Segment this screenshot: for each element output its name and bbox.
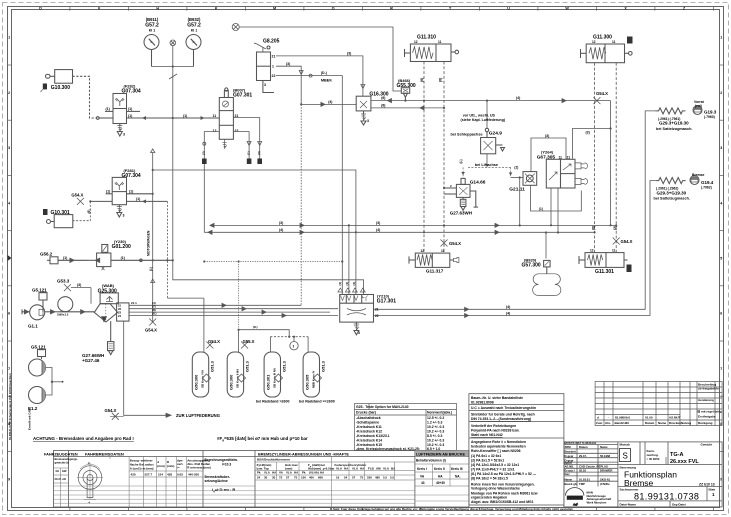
svg-text:4: 4 xyxy=(720,201,722,205)
solenoid valve G11.310 xyxy=(405,44,459,62)
svg-text:(4): (4) xyxy=(376,228,380,232)
svg-text:G19.4: G19.4 xyxy=(701,180,714,185)
svg-text:G8.205: G8.205 xyxy=(263,39,280,45)
svg-text:(4): (4) xyxy=(345,282,349,286)
svg-text:KI 1: KI 1 xyxy=(149,29,155,33)
svg-text:22: 22 xyxy=(235,129,239,133)
svg-text:Angegebene Rohr # = Nenndicken: Angegebene Rohr # = Nenndicken xyxy=(471,440,526,444)
air tank G50.305 xyxy=(303,352,319,397)
svg-text:Zust: Zust xyxy=(596,421,602,425)
svg-text:(3): (3) xyxy=(286,62,290,66)
svg-text:1: 1 xyxy=(720,36,722,40)
svg-text:G11.300: G11.300 xyxy=(593,35,612,41)
svg-text:3: 3 xyxy=(123,133,125,137)
svg-text:bei Schleppachse: bei Schleppachse xyxy=(451,133,483,137)
svg-text:G54.X: G54.X xyxy=(105,408,117,413)
svg-text:154: 154 xyxy=(158,473,163,477)
test connector between gauges xyxy=(170,40,176,46)
fitting G5.121 lower xyxy=(38,350,46,360)
wheel cross-section drawing xyxy=(77,464,103,499)
svg-text:1: 1 xyxy=(8,36,10,40)
main distribution bus upper xyxy=(210,223,616,227)
svg-text:Band2-Mit: Band2-Mit xyxy=(615,421,630,425)
svg-text:(8.) PA 14x2.5 ou PA 12x1.5-PH: (8.) PA 14x2.5 ou PA 12x1.5-PHLY = 52 --… xyxy=(471,472,536,476)
svg-text:7: 7 xyxy=(720,367,722,371)
svg-text:G51.3: G51.3 xyxy=(210,360,215,372)
top stubs G17.301 xyxy=(338,288,365,292)
air horn E1.2 a xyxy=(29,359,46,376)
svg-text:G50.300: G50.300 xyxy=(229,374,234,390)
svg-text:VLA: VLA xyxy=(383,467,390,471)
svg-text:G11.310: G11.310 xyxy=(417,35,436,41)
svg-text:(8.): (8.) xyxy=(253,325,258,329)
svg-text:AS.MUT: AS.MUT xyxy=(669,415,681,419)
svg-text:DIN 74.253.1--2---(Sonderausfu: DIN 74.253.1--2---(Sonderausfuhrung) xyxy=(471,417,531,421)
svg-text:Verkeileff der Rohrleitungen: Verkeileff der Rohrleitungen xyxy=(471,424,516,428)
brake cylinder table xyxy=(257,458,397,471)
pressure option table xyxy=(355,404,457,451)
table headers xyxy=(44,451,465,456)
svg-text:Ruckgang: Ruckgang xyxy=(698,421,713,425)
svg-text:-: - xyxy=(608,415,609,419)
svg-text:G25.300: G25.300 xyxy=(98,288,117,294)
svg-text:100: 100 xyxy=(301,476,306,480)
svg-text:G0: G0 xyxy=(56,469,60,473)
label gauge 1 xyxy=(145,17,159,33)
svg-text:FAHRZEUGDATEN: FAHRZEUGDATEN xyxy=(44,452,78,456)
svg-text:12: 12 xyxy=(590,249,594,253)
svg-text:VLA: VLA xyxy=(352,467,359,471)
wire gauges manifold xyxy=(152,46,364,295)
svg-text:(4): (4) xyxy=(516,96,520,100)
shutoff G54.X on supply right xyxy=(593,97,600,104)
silencer G27.63WH xyxy=(460,197,466,210)
svg-text:Aenderung: Aenderung xyxy=(698,398,714,402)
wire G21.11 left xyxy=(511,177,523,179)
svg-text:G54.X: G54.X xyxy=(208,339,220,344)
svg-text:57: 57 xyxy=(352,476,356,480)
svg-text:Drucken: Drucken xyxy=(669,421,681,425)
svg-text:75: 75 xyxy=(360,476,364,480)
wires G07.301 ports xyxy=(203,118,262,233)
svg-text:O: O xyxy=(332,7,335,11)
svg-text:ZZ b10 13: ZZ b10 13 xyxy=(699,483,715,487)
svg-text:(mm): (mm) xyxy=(157,464,164,468)
svg-text:(6): (6) xyxy=(87,210,91,214)
wire lamp to pressure switch xyxy=(239,27,401,91)
svg-text:11: 11 xyxy=(213,114,217,118)
notes block xyxy=(469,394,564,505)
svg-text:cb-freigabebln: cb-freigabebln xyxy=(698,387,719,391)
svg-text:Nutzug: Nutzug xyxy=(681,421,691,425)
svg-text:Kreis I: Kreis I xyxy=(417,467,427,471)
hose coil supply G29.3+G19.30 xyxy=(656,106,703,115)
relay valve G07.304 (F282) xyxy=(105,94,219,137)
svg-text:G29.3+G19.30: G29.3+G19.30 xyxy=(657,190,687,195)
svg-text:12: 12 xyxy=(414,40,418,44)
solenoid valve G07.301 (B007) xyxy=(219,88,233,148)
drain valve G55.X tank2 xyxy=(241,342,248,349)
wire G8.205 port21 to G16.300 top xyxy=(276,56,365,96)
svg-text:24: 24 xyxy=(257,476,261,480)
svg-text:Aln-: Aln- xyxy=(605,421,611,425)
svg-text:Sinnbilder fur Gerate und Rohr: Sinnbilder fur Gerate und Rohrltg. nach xyxy=(471,413,535,417)
ports block labels xyxy=(118,304,122,318)
bulkhead plugs under G07.301 xyxy=(202,159,207,165)
svg-text:5.5: 5.5 xyxy=(383,476,387,480)
wire G16.300 out upper xyxy=(371,99,611,103)
svg-text:G11.301: G11.301 xyxy=(595,269,614,275)
air dryer G25.300 (B438) xyxy=(94,293,129,342)
svg-text:G67.305: G67.305 xyxy=(537,154,556,160)
svg-text:400: 400 xyxy=(309,476,314,480)
svg-text:i=10.3: i=10.3 xyxy=(222,463,231,467)
svg-text:-Kreisdruck K12: -Kreisdruck K12 xyxy=(356,430,382,434)
svg-text:02.02: 02.02 xyxy=(579,468,586,472)
svg-text:30: 30 xyxy=(264,476,268,480)
svg-text:24: 24 xyxy=(344,476,348,480)
svg-text:-Kreisdruck K13/23.1: -Kreisdruck K13/23.1 xyxy=(356,434,390,438)
svg-text:(2): (2) xyxy=(514,165,518,169)
svg-text:(1) PA 6x1 = 32: (1) PA 6x1 = 32 6x1 xyxy=(471,454,501,458)
svg-text:1.2 +/- 0.3: 1.2 +/- 0.3 xyxy=(427,421,442,425)
svg-text:22: 22 xyxy=(272,74,276,78)
svg-text:-Abschaltdruck: -Abschaltdruck xyxy=(356,416,381,420)
svg-text:G07.304: G07.304 xyxy=(122,173,141,179)
svg-text:DRAWER: DRAWER xyxy=(600,468,612,472)
svg-text:VLA: VLA xyxy=(264,471,271,475)
manifold row 23 xyxy=(129,310,330,314)
svg-text:W: W xyxy=(565,7,569,11)
svg-text:Abgel. aus: BM1/G1f3/SB.412 un: Abgel. aus: BM1/G1f3/SB.412 und MG1 xyxy=(471,500,534,504)
svg-text:bei Sattelzugmasch.: bei Sattelzugmasch. xyxy=(654,197,691,201)
svg-text:57: 57 xyxy=(286,476,290,480)
svg-text:setzung/Achse: setzung/Achse xyxy=(205,479,228,483)
vehicle data cell xyxy=(55,457,78,481)
wire G16.300 in xyxy=(301,102,356,106)
svg-text:☒ mit regel.fahig: ☒ mit regel.fahig xyxy=(698,410,722,414)
svg-text:G57.300: G57.300 xyxy=(522,263,541,269)
ports G07.301 xyxy=(213,114,239,133)
svg-text:(1): (1) xyxy=(106,189,110,193)
frame grid ticks left/right xyxy=(8,65,724,451)
long risers G11.300 down to G11.301 xyxy=(595,63,617,253)
svg-text:(4) PA 12x1.5/16x2.5 = 32 1: (4) PA 12x1.5/16x2.5 = 32 12x1 xyxy=(471,463,519,467)
svg-text:30: 30 xyxy=(272,476,276,480)
svg-text:16: 16 xyxy=(336,476,340,480)
svg-text:G16.300: G16.300 xyxy=(369,92,388,98)
svg-text:(B911): (B911) xyxy=(146,17,159,22)
svg-text:G29.3+G19.30: G29.3+G19.30 xyxy=(659,121,689,126)
svg-text:(1): (1) xyxy=(128,107,132,111)
dotted service line xyxy=(204,262,342,330)
svg-text:Gewicht: Gewicht xyxy=(701,443,713,447)
svg-text:(2) PA 3x1.5 = 52: (2) PA 3x1.5 = 52 8x1 xyxy=(471,459,504,463)
svg-text:M: M xyxy=(273,7,276,11)
svg-text:(3): (3) xyxy=(376,221,380,225)
svg-text:11: 11 xyxy=(612,40,616,44)
svg-text:G11.317: G11.317 xyxy=(426,269,444,274)
svg-text:ZRM: ZRM xyxy=(565,445,572,449)
svg-text:R.Satz: Fuer diese Unterlage b: R.Satz: Fuer diese Unterlage behalten wi… xyxy=(330,507,574,511)
manifold row 24 xyxy=(129,314,338,318)
svg-text:G5.121: G5.121 xyxy=(32,288,47,293)
svg-text:(3): (3) xyxy=(77,283,81,287)
pressure limiter G16.300 xyxy=(356,96,371,125)
svg-text:ZUR LUFTFEDERUNG: ZUR LUFTFEDERUNG xyxy=(176,413,220,418)
svg-text:(1): (1) xyxy=(246,151,250,155)
G11.310 drops xyxy=(424,62,444,253)
svg-text:G01.200: G01.200 xyxy=(112,244,131,250)
empty ruled rows lower xyxy=(54,486,469,503)
svg-text:440-550: 440-550 xyxy=(188,473,199,477)
svg-text:527.7: 527.7 xyxy=(145,473,153,477)
svg-text:bei Liftachse: bei Liftachse xyxy=(475,163,498,167)
title block xyxy=(564,442,722,507)
svg-text:(6): (6) xyxy=(381,96,385,100)
svg-text:(1): (1) xyxy=(136,197,140,201)
svg-text:4: 4 xyxy=(8,201,10,205)
air tank G50.301 xyxy=(264,352,280,397)
svg-text:12: 12 xyxy=(213,129,217,133)
ports G8.205 xyxy=(272,55,276,79)
svg-text:(siehe Kapl. Luftfederung): (siehe Kapl. Luftfederung) xyxy=(461,118,506,122)
svg-text:Mastab: Mastab xyxy=(620,443,631,447)
svg-text:Drucke (bar): Drucke (bar) xyxy=(356,411,376,415)
svg-text:(6): (6) xyxy=(420,78,424,82)
svg-text:3: 3 xyxy=(358,331,360,335)
svg-text:GW: GW xyxy=(62,469,67,473)
svg-text:Blatt: Blatt xyxy=(709,488,716,492)
tank feed drops xyxy=(204,298,308,352)
svg-text:d: d xyxy=(89,501,91,505)
revision table xyxy=(595,382,722,426)
svg-text:(6): (6) xyxy=(592,226,596,230)
svg-text:(4): (4) xyxy=(328,100,332,104)
svg-text:-Schaltspanne: -Schaltspanne xyxy=(356,421,379,425)
svg-text:(1): (1) xyxy=(106,107,110,111)
left margin fold arrow xyxy=(8,255,12,261)
svg-text:Gez: Gez xyxy=(565,472,571,476)
svg-text:(B932): (B932) xyxy=(188,17,201,22)
pressure gauge G57.2 (B911) xyxy=(144,35,159,67)
svg-text:bei Radstand >2600: bei Radstand >2600 xyxy=(256,400,290,404)
svg-text:(3): (3) xyxy=(202,151,206,155)
svg-text:G5.121: G5.121 xyxy=(31,345,46,350)
svg-text:(1): (1) xyxy=(128,114,132,118)
svg-text:G21.11: G21.11 xyxy=(509,186,525,192)
svg-text:G50.301: G50.301 xyxy=(266,374,271,390)
svg-text:Werk Munchen: Werk Munchen xyxy=(587,500,607,504)
svg-text:S: S xyxy=(623,452,628,461)
svg-text:G27.63WH: G27.63WH xyxy=(450,210,472,215)
middle riser 2 xyxy=(348,225,350,294)
overflow valve G14.66 xyxy=(444,178,478,207)
shutoff G54.X on riser xyxy=(613,238,620,245)
svg-text:G10.301: G10.301 xyxy=(51,210,70,216)
svg-text:G55.X: G55.X xyxy=(243,339,255,344)
svg-text:G54.X: G54.X xyxy=(449,241,461,246)
svg-text:11: 11 xyxy=(438,40,442,44)
wire G8.205 port1 down xyxy=(276,66,303,305)
svg-text:G53.3: G53.3 xyxy=(57,279,70,284)
svg-text:21: 21 xyxy=(567,155,571,159)
frame grid letters top xyxy=(39,7,686,11)
svg-text:Pk: Pk xyxy=(302,471,306,475)
svg-text:26.xxx FVL: 26.xxx FVL xyxy=(670,459,699,465)
svg-text:5.5: 5.5 xyxy=(390,476,394,480)
svg-text:G19.3: G19.3 xyxy=(704,110,717,115)
svg-text:G07.301: G07.301 xyxy=(233,93,252,99)
svg-text:7: 7 xyxy=(8,367,10,371)
feed to G24.9 xyxy=(486,101,488,129)
svg-text:2: 2 xyxy=(720,91,722,95)
svg-text:G24.9: G24.9 xyxy=(489,131,502,137)
main distribution bus lower xyxy=(204,230,594,234)
drop to G10.301 xyxy=(73,201,91,220)
calc cell xyxy=(205,458,238,493)
svg-text:(Y264): (Y264) xyxy=(541,149,554,154)
svg-text:Bearbeit: Bearbeit xyxy=(565,450,576,454)
svg-text:8.5 +/- 0.3: 8.5 +/- 0.3 xyxy=(427,434,442,438)
shutoff G53.3 xyxy=(64,284,91,304)
connector G56.2 xyxy=(47,257,88,264)
wire G8.205 port22 MBEF line xyxy=(276,74,342,294)
svg-text:d: d xyxy=(597,415,599,419)
svg-text:29.Cf.: 29.Cf. xyxy=(579,454,587,458)
trailer control valve G17.301 (Y210) xyxy=(340,295,374,335)
svg-text:LUFTFEDERN AB BRUCKE: LUFTFEDERN AB BRUCKE xyxy=(416,452,465,456)
svg-text:11: 11 xyxy=(441,249,445,253)
svg-text:G54.X: G54.X xyxy=(621,239,633,244)
svg-text:Name: Name xyxy=(600,445,608,449)
svg-text:D: D xyxy=(39,7,42,11)
svg-text:(mm): (mm) xyxy=(167,464,174,468)
svg-text:(4): (4) xyxy=(338,282,342,286)
svg-text:(1): (1) xyxy=(149,267,153,271)
svg-text:Behaltervolumen (l): Behaltervolumen (l) xyxy=(416,459,446,463)
svg-text:6: 6 xyxy=(720,312,722,316)
svg-text:3: 3 xyxy=(367,119,369,123)
svg-text:G14.66: G14.66 xyxy=(470,179,486,185)
svg-text:480: 480 xyxy=(375,476,380,480)
svg-text:(6): (6) xyxy=(381,104,385,108)
svg-text:(4): (4) xyxy=(352,282,356,286)
hatched plug G11.300 xyxy=(627,37,633,44)
svg-text:G51.3: G51.3 xyxy=(245,360,250,372)
svg-text:5: 5 xyxy=(720,257,722,261)
svg-text:-b-: -b- xyxy=(88,461,92,465)
fitting G5.121 upper xyxy=(39,293,47,312)
svg-text:Bearb gb: Bearb gb xyxy=(565,482,577,486)
svg-text:(3): (3) xyxy=(257,151,261,155)
svg-text:56.1968: 56.1968 xyxy=(600,454,611,458)
svg-text:+G27.46: +G27.46 xyxy=(82,358,100,363)
dashed drop F281 line 2 xyxy=(166,201,168,298)
svg-text:Rohr-Kennziffer [ ] nach N0206: Rohr-Kennziffer [ ] nach N0206 xyxy=(471,449,521,453)
tank3 check G51.3 xyxy=(275,374,283,382)
net line F281 up-corner riser xyxy=(149,149,156,326)
svg-text:FAHRBREMSDATEN: FAHRBREMSDATEN xyxy=(85,451,124,456)
svg-text:TG-A: TG-A xyxy=(670,452,683,458)
svg-text:G51.3: G51.3 xyxy=(282,360,287,372)
svg-text:(Y230): (Y230) xyxy=(114,239,127,244)
svg-text:81.98009.0: 81.98009.0 xyxy=(615,415,630,419)
svg-text:(1): (1) xyxy=(129,189,133,193)
svg-text:(.7960): (.7960) xyxy=(704,115,715,119)
svg-text:gewichte (t): gewichte (t) xyxy=(55,461,70,465)
svg-text:12.5 +/- 0.2: 12.5 +/- 0.2 xyxy=(427,416,444,420)
svg-text:530: 530 xyxy=(367,476,372,480)
foot brake valve G8.205 xyxy=(254,43,274,93)
svg-text:Bremsauslegungs-: Bremsauslegungs- xyxy=(55,457,78,461)
svg-text:U: U xyxy=(507,7,510,11)
feed to tank bus xyxy=(167,297,204,299)
air dryer cartridge circle xyxy=(58,297,95,314)
svg-text:BSA/Druckluftbremsen: BSA/Druckluftbremsen xyxy=(257,458,290,462)
svg-text:MOTORWAGEN: MOTORWAGEN xyxy=(147,230,151,256)
trailer ctrl valve G11.301 xyxy=(579,253,628,268)
svg-text:i=: i= xyxy=(177,466,180,470)
wires G67.305 bottom to buses xyxy=(546,188,558,259)
svg-text:Polyamid-PA nach N0238 bzw.: Polyamid-PA nach N0238 bzw. xyxy=(471,429,520,433)
svg-text:Datei-Name: Datei-Name xyxy=(620,502,637,506)
svg-text:(rot): (rot) xyxy=(695,104,702,108)
compressor G1.1 xyxy=(22,305,58,320)
trailer supply line 21 xyxy=(374,111,656,311)
svg-text:(3): (3) xyxy=(586,131,590,135)
shutoff G54.X above G11.317 xyxy=(441,240,448,247)
svg-text:K: K xyxy=(215,7,218,11)
svg-text:MBEF.: MBEF. xyxy=(321,79,332,83)
cross wire to riser3 xyxy=(153,170,356,295)
drop from lift net to bus xyxy=(519,178,521,226)
svg-text:(7) PA 11x0-PHLY = 32 1: (7) PA 11x0-PHLY = 32 12x1 xyxy=(471,468,515,472)
svg-text:9: 9 xyxy=(8,477,10,481)
svg-text:2: 2 xyxy=(8,91,10,95)
svg-text:G50.300: G50.300 xyxy=(194,374,199,390)
svg-text:(4): (4) xyxy=(506,311,510,315)
svg-text:81.99131.0738: 81.99131.0738 xyxy=(634,492,699,502)
svg-text:Name: Name xyxy=(658,421,667,425)
svg-text:(3): (3) xyxy=(545,134,549,138)
wire G24.9 down to lift-axle net xyxy=(486,154,488,168)
svg-text:(D-): (D-) xyxy=(321,71,327,75)
svg-text:(1): (1) xyxy=(539,207,543,211)
svg-text:10.2 +/- 0.3: 10.2 +/- 0.3 xyxy=(427,430,444,434)
svg-text:St95x1.5: St95x1.5 xyxy=(57,313,69,317)
hatched plug G10.301 xyxy=(43,209,48,215)
svg-text:SKO-61: SKO-61 xyxy=(600,477,611,481)
svg-text:erganzenden Angaben: erganzenden Angaben xyxy=(471,496,507,500)
svg-text:bedeuten aquivalente Nennweite: bedeuten aquivalente Nennweiten xyxy=(471,445,526,449)
G21.11 bottom loop to lift bellows port xyxy=(531,185,582,211)
svg-text:FLB: FLB xyxy=(368,467,375,471)
svg-text:21: 21 xyxy=(375,308,379,312)
svg-text:3: 3 xyxy=(720,146,722,150)
svg-text:Name: Name xyxy=(565,477,573,481)
svg-text:81.99131.0738 Schutzvermerk I: 81.99131.0738 Schutzvermerk ISO 16016 be… xyxy=(8,373,12,440)
svg-text:1: 1 xyxy=(272,65,274,69)
svg-text:G54.X: G54.X xyxy=(596,91,608,96)
brake data columns xyxy=(110,457,187,508)
manifold row 21 xyxy=(129,303,301,307)
svg-text:R min-max (mm): R min-max (mm) xyxy=(187,466,211,470)
scale box xyxy=(620,443,713,447)
svg-text:VLA: VLA xyxy=(286,471,293,475)
port markers F281 xyxy=(106,189,140,201)
svg-text:Stahl nach N01-N42: Stahl nach N01-N42 xyxy=(471,433,503,437)
